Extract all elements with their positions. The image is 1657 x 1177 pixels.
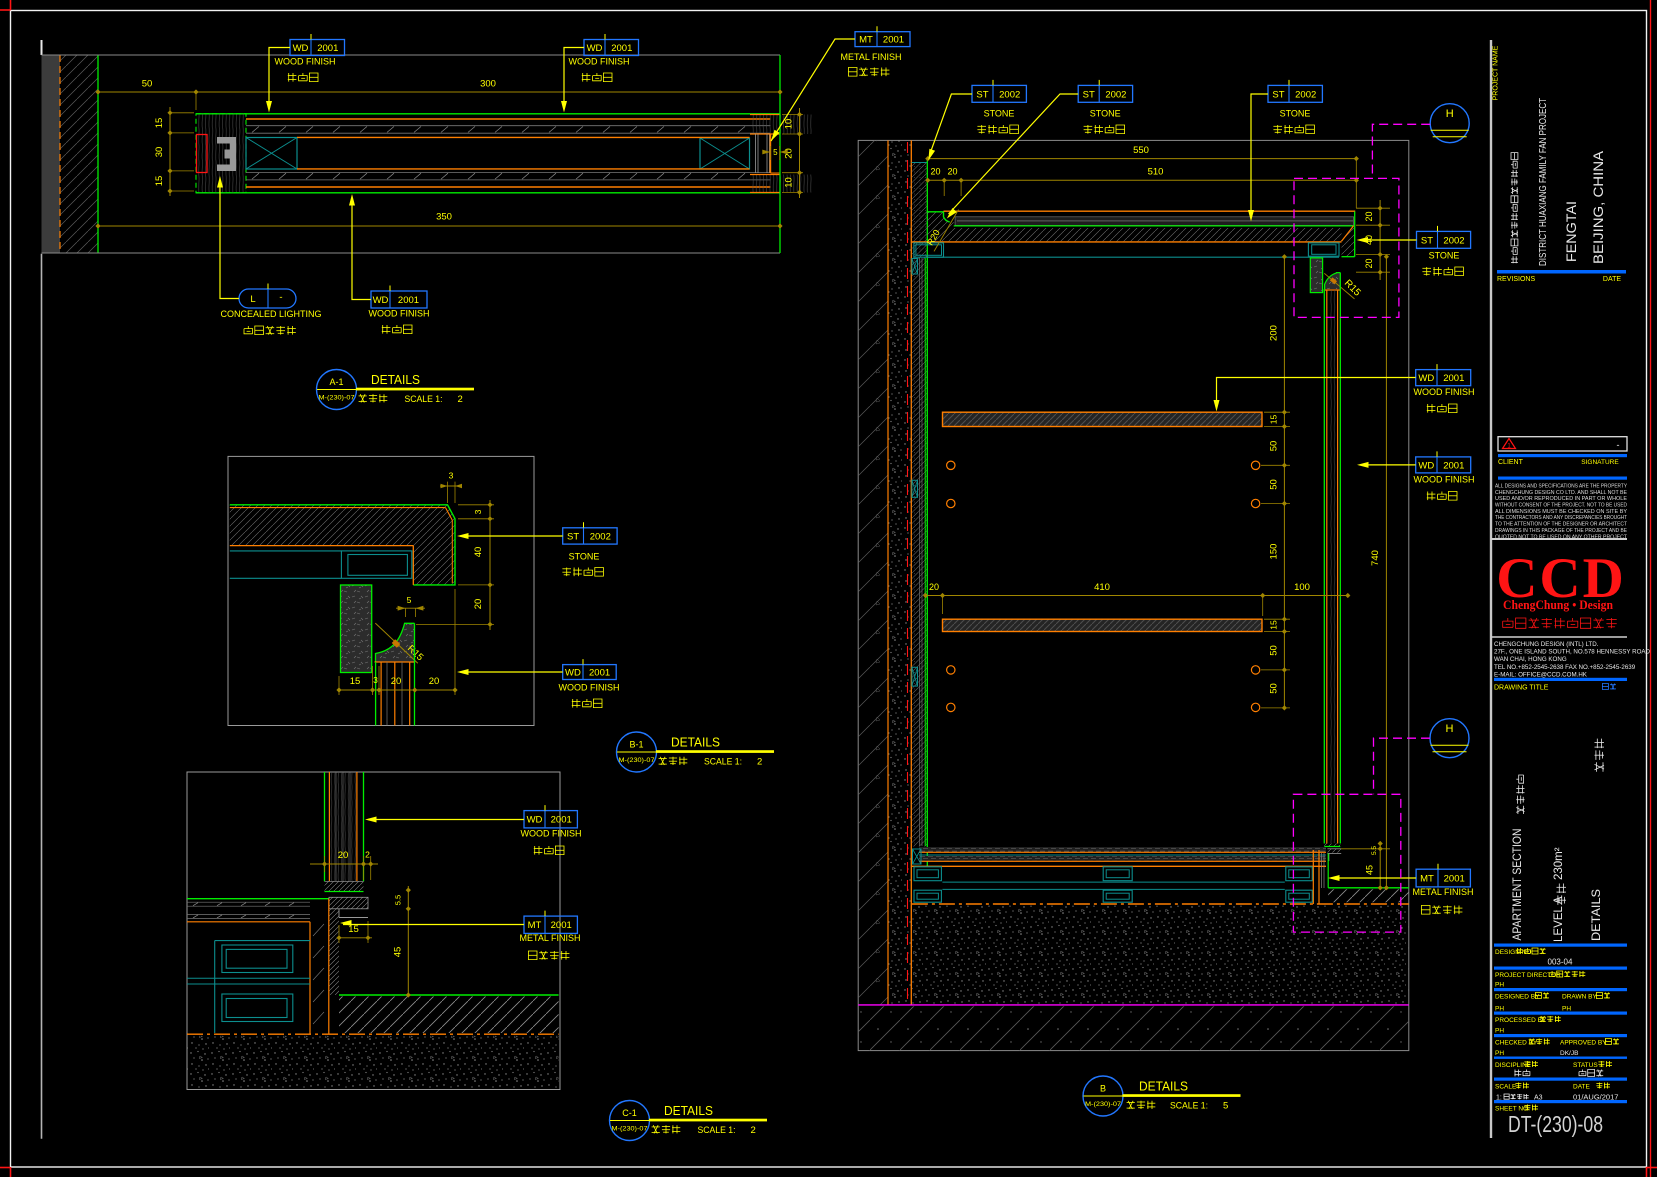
svg-text:50: 50 — [1269, 441, 1280, 452]
svg-text:M-(230)-07: M-(230)-07 — [1085, 1101, 1122, 1108]
svg-text:REVISIONS: REVISIONS — [1497, 276, 1535, 283]
svg-text:MT: MT — [859, 35, 873, 46]
svg-text:DETAILS: DETAILS — [664, 1103, 713, 1118]
svg-text:CONCEALED LIGHTING: CONCEALED LIGHTING — [220, 309, 321, 319]
svg-text:DESIGNED BY: DESIGNED BY — [1495, 994, 1540, 1001]
svg-text:2002: 2002 — [590, 531, 611, 542]
svg-text:PH: PH — [1495, 1050, 1504, 1057]
svg-text:550: 550 — [1133, 145, 1149, 156]
svg-text:DT-(230)-08: DT-(230)-08 — [1508, 1111, 1603, 1137]
svg-text:SCALE 1:: SCALE 1: — [1170, 1101, 1208, 1112]
svg-text:METAL FINISH: METAL FINISH — [1412, 887, 1473, 897]
svg-text:3: 3 — [449, 471, 454, 481]
svg-text:5: 5 — [1223, 1101, 1228, 1112]
svg-text:TO THE ATTENTION OF THE DESIGN: TO THE ATTENTION OF THE DESIGNER OR ARCH… — [1495, 522, 1628, 528]
svg-text:2001: 2001 — [551, 815, 572, 826]
svg-text:150: 150 — [1269, 544, 1280, 560]
svg-text:USED AND/OR REPRODUCED IN PART: USED AND/OR REPRODUCED IN PART OR WHOLE — [1495, 496, 1627, 502]
svg-text:2002: 2002 — [1443, 235, 1464, 246]
svg-text:STONE: STONE — [569, 552, 600, 562]
svg-text:2001: 2001 — [589, 668, 610, 679]
svg-text:M-(230)-07: M-(230)-07 — [619, 757, 656, 764]
svg-text:2: 2 — [458, 394, 463, 405]
svg-text:WITHOUT CONSENT OF THE PROJECT: WITHOUT CONSENT OF THE PROJECT. NOT TO B… — [1495, 503, 1627, 509]
svg-text:WOOD FINISH: WOOD FINISH — [521, 829, 582, 839]
svg-text:WD: WD — [587, 43, 603, 54]
svg-text:WD: WD — [1418, 373, 1434, 384]
svg-text:E-MAIL: OFFICE@CCD.COM.HK: E-MAIL: OFFICE@CCD.COM.HK — [1494, 671, 1588, 678]
svg-text:MT: MT — [528, 920, 542, 931]
svg-text:5.5: 5.5 — [394, 895, 403, 905]
svg-text:METAL FINISH: METAL FINISH — [519, 933, 580, 943]
svg-text:2001: 2001 — [551, 920, 572, 931]
svg-text:PH: PH — [1562, 1006, 1571, 1013]
svg-text:PROCESSED BY: PROCESSED BY — [1495, 1017, 1547, 1024]
svg-text:M-(230)-07: M-(230)-07 — [612, 1126, 649, 1133]
svg-text:350: 350 — [436, 212, 452, 223]
svg-text:50: 50 — [1269, 479, 1280, 490]
svg-text:15: 15 — [154, 118, 165, 129]
svg-text:METAL FINISH: METAL FINISH — [840, 52, 901, 62]
svg-text:SCALE: SCALE — [1495, 1084, 1517, 1091]
svg-text:2001: 2001 — [611, 43, 632, 54]
svg-text:THE CONTRACTORS AND ANY DISCRE: THE CONTRACTORS AND ANY DISCREPANCIES BR… — [1495, 515, 1627, 521]
svg-text:15: 15 — [350, 676, 361, 687]
svg-text:WAN CHAI, HONG KONG: WAN CHAI, HONG KONG — [1494, 656, 1567, 663]
svg-text:ST: ST — [976, 89, 988, 100]
svg-text:ST: ST — [1083, 89, 1095, 100]
svg-text:DETAILS: DETAILS — [671, 735, 720, 750]
svg-text:2001: 2001 — [317, 43, 338, 54]
svg-text:510: 510 — [1148, 167, 1164, 178]
svg-text:2001: 2001 — [1443, 460, 1464, 471]
svg-text:27F., ONE ISLAND SOUTH, NO.578: 27F., ONE ISLAND SOUTH, NO.578 HENNESSY … — [1494, 649, 1651, 656]
svg-text:C-1: C-1 — [622, 1108, 637, 1118]
svg-text:SCALE 1:: SCALE 1: — [704, 757, 742, 768]
svg-text:2002: 2002 — [999, 89, 1020, 100]
svg-text:L: L — [250, 294, 255, 305]
svg-text:STONE: STONE — [1280, 109, 1311, 119]
svg-text:15: 15 — [1269, 620, 1279, 630]
svg-text:DATE: DATE — [1603, 276, 1621, 283]
svg-text:20: 20 — [1364, 258, 1374, 268]
svg-text:SCALE 1:: SCALE 1: — [405, 394, 443, 405]
svg-text:2002: 2002 — [1105, 89, 1126, 100]
svg-text:45: 45 — [393, 947, 404, 958]
svg-text:2002: 2002 — [1295, 89, 1316, 100]
svg-text:WD: WD — [1418, 460, 1434, 471]
svg-text:TEL NO.+852-2545-2638 FAX: TEL NO.+852-2545-2638 FAX NO.+852-2545-2… — [1494, 664, 1636, 671]
svg-text:PH: PH — [1495, 1028, 1504, 1035]
svg-text:DETAILS: DETAILS — [1591, 889, 1603, 941]
svg-text:003-04: 003-04 — [1548, 958, 1573, 967]
svg-text:100: 100 — [1294, 582, 1310, 593]
svg-text:2: 2 — [365, 850, 370, 860]
svg-text:SCALE 1:: SCALE 1: — [698, 1125, 736, 1136]
svg-text:H: H — [1446, 108, 1454, 120]
svg-text:45: 45 — [1365, 865, 1375, 875]
svg-text:15: 15 — [154, 176, 165, 187]
svg-text:SIGNATURE: SIGNATURE — [1581, 459, 1619, 466]
svg-text:B-1: B-1 — [629, 740, 643, 750]
svg-text:DISCIPLINE: DISCIPLINE — [1495, 1062, 1532, 1069]
svg-text:WOOD FINISH: WOOD FINISH — [559, 683, 620, 693]
svg-text:ALL DIMENSIONS MUST BE CHECKED: ALL DIMENSIONS MUST BE CHECKED ON SITE B… — [1495, 509, 1627, 515]
svg-text:WOOD FINISH: WOOD FINISH — [369, 309, 430, 319]
svg-text:DATE: DATE — [1573, 1084, 1591, 1091]
svg-text:20: 20 — [929, 582, 939, 592]
svg-text:20: 20 — [473, 599, 484, 610]
svg-text:2001: 2001 — [398, 295, 419, 306]
svg-text:40: 40 — [473, 547, 484, 558]
svg-text:PH: PH — [1495, 1006, 1504, 1013]
svg-text:WOOD FINISH: WOOD FINISH — [569, 57, 630, 67]
svg-text:M-(230)-07: M-(230)-07 — [319, 395, 356, 402]
svg-text:WOOD FINISH: WOOD FINISH — [275, 57, 336, 67]
svg-text:DRAWINGS IN THIS PACKAGE OF TH: DRAWINGS IN THIS PACKAGE OF THE PROJECT … — [1495, 528, 1627, 534]
svg-text:15: 15 — [348, 924, 359, 935]
svg-text:410: 410 — [1094, 582, 1110, 593]
svg-text:5: 5 — [773, 148, 778, 157]
svg-text:5.5: 5.5 — [1371, 846, 1378, 855]
svg-text:WD: WD — [527, 815, 543, 826]
svg-text:20: 20 — [947, 167, 957, 177]
svg-text:STONE: STONE — [1090, 109, 1121, 119]
svg-text:15: 15 — [1269, 415, 1279, 425]
svg-text:300: 300 — [480, 79, 496, 90]
svg-text:DRAWING TITLE: DRAWING TITLE — [1494, 685, 1549, 692]
svg-text:WD: WD — [293, 43, 309, 54]
svg-text:50: 50 — [1269, 683, 1280, 694]
svg-text:PH: PH — [1495, 982, 1504, 989]
svg-text:200: 200 — [1269, 325, 1280, 341]
svg-text:DETAILS: DETAILS — [371, 372, 420, 387]
svg-text:3: 3 — [473, 509, 483, 514]
svg-text:STONE: STONE — [1429, 251, 1460, 261]
svg-text:740: 740 — [1370, 550, 1381, 566]
svg-text:CHENGCHUNG DESIGN CO LTD. AND: CHENGCHUNG DESIGN CO LTD. AND SHALL NOT … — [1495, 490, 1627, 496]
svg-text:5: 5 — [407, 595, 412, 605]
svg-text:ST: ST — [1272, 89, 1284, 100]
svg-text:20: 20 — [930, 167, 940, 177]
svg-text:2: 2 — [751, 1125, 756, 1136]
svg-text:30: 30 — [154, 147, 165, 158]
svg-text:DK/JB: DK/JB — [1560, 1050, 1578, 1057]
svg-text:-: - — [1617, 440, 1620, 450]
svg-text:20: 20 — [338, 850, 349, 861]
svg-text:WD: WD — [373, 295, 389, 306]
svg-text:ST: ST — [567, 531, 579, 542]
svg-text:DRAWN BY: DRAWN BY — [1562, 994, 1597, 1001]
svg-text:DETAILS: DETAILS — [1139, 1079, 1188, 1094]
svg-text:-: - — [279, 292, 282, 303]
svg-text:2001: 2001 — [883, 35, 904, 46]
svg-text:50: 50 — [142, 79, 153, 90]
svg-text:STONE: STONE — [984, 109, 1015, 119]
svg-text:APPROVED BY: APPROVED BY — [1560, 1040, 1607, 1047]
svg-text:20: 20 — [1364, 211, 1374, 221]
svg-text:10: 10 — [784, 119, 795, 130]
svg-text:20: 20 — [429, 676, 440, 687]
svg-text:230m²: 230m² — [1553, 847, 1565, 880]
svg-text:B: B — [1100, 1084, 1106, 1094]
svg-text:APARTMENT SECTION: APARTMENT SECTION — [1512, 829, 1524, 941]
svg-text:DISTRICT HUAXIANG FAMILY FAN: DISTRICT HUAXIANG FAMILY FAN PROJECT — [1538, 98, 1549, 266]
svg-text:FENGTAI: FENGTAI — [1563, 201, 1579, 262]
svg-text:20: 20 — [391, 676, 402, 687]
svg-text:WOOD FINISH: WOOD FINISH — [1414, 387, 1475, 397]
svg-text:3: 3 — [373, 675, 378, 685]
svg-text:LEVEL A: LEVEL A — [1553, 896, 1565, 942]
svg-text:ALL DESIGNS AND SPECIFICATIONS: ALL DESIGNS AND SPECIFICATIONS ARE THE P… — [1495, 484, 1627, 490]
svg-text:2001: 2001 — [1443, 373, 1464, 384]
svg-text:H: H — [1446, 723, 1454, 735]
svg-text:CHENGCHUNG DESIGN (INTL) LTD.: CHENGCHUNG DESIGN (INTL) LTD. — [1494, 641, 1599, 648]
svg-text:CLIENT: CLIENT — [1498, 459, 1524, 466]
svg-text:50: 50 — [1269, 645, 1280, 656]
svg-text:ChengChung • Design: ChengChung • Design — [1503, 598, 1613, 612]
svg-text:A-1: A-1 — [329, 377, 343, 387]
svg-text:MT: MT — [1420, 874, 1434, 885]
svg-text:10: 10 — [784, 177, 795, 188]
svg-text:PROJECT NAME: PROJECT NAME — [1493, 45, 1500, 100]
svg-text:2001: 2001 — [1444, 874, 1465, 885]
svg-text:2: 2 — [757, 757, 762, 768]
svg-text:STATUS: STATUS — [1573, 1062, 1598, 1069]
svg-text:WOOD FINISH: WOOD FINISH — [1414, 474, 1475, 484]
svg-text:WD: WD — [565, 668, 581, 679]
svg-text:ST: ST — [1421, 235, 1433, 246]
svg-text:BEIJING, CHINA: BEIJING, CHINA — [1590, 150, 1606, 264]
